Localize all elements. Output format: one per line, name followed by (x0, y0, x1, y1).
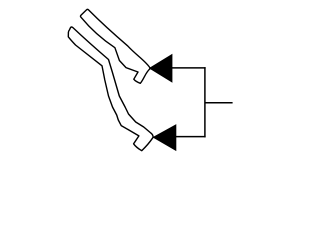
terminal lead (205, 102, 233, 104)
wire from D2 to bus (175, 136, 206, 138)
light ray arrow 2 (hollow, lower) (68, 27, 153, 151)
wire bus vertical (204, 67, 206, 137)
light ray arrow 1 (hollow, upper) (80, 9, 150, 83)
diode triangle D2 (lower) (153, 125, 175, 150)
diode triangle D1 (upper) (150, 55, 172, 82)
wire from D1 to bus (171, 67, 206, 69)
